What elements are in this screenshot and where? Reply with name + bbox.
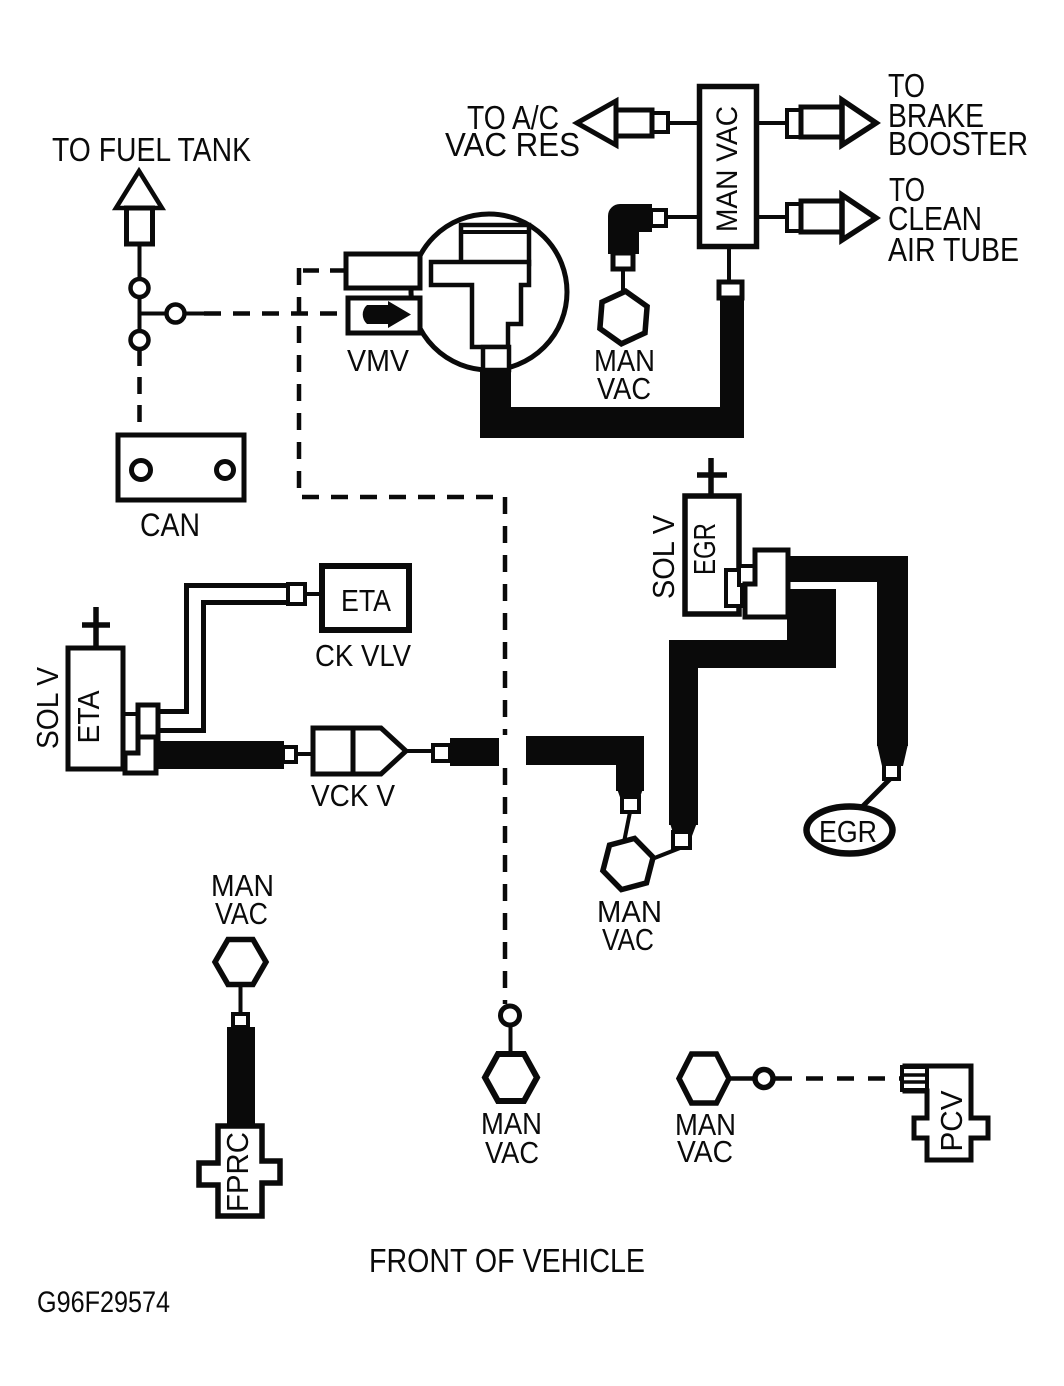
svg-text:G96F29574: G96F29574 xyxy=(37,1286,170,1319)
svg-text:ETA: ETA xyxy=(341,583,391,618)
node circle on dashed trunk (bottom) xyxy=(501,1006,520,1025)
connector to brake booster (right arrow) xyxy=(787,100,876,145)
thick hose 2 EGR solenoid to MAN VAC hexagon (black) xyxy=(669,589,836,836)
VMV left lower port rectangle xyxy=(348,298,420,333)
CAN port circle right xyxy=(217,462,234,479)
elbow connector (black) at MAN VAC left port xyxy=(609,205,651,253)
PCV ribbed connector xyxy=(902,1067,927,1090)
svg-text:EGR: EGR xyxy=(819,814,877,849)
svg-text:VAC: VAC xyxy=(215,896,268,931)
plus symbol above EGR solenoid xyxy=(697,458,727,498)
svg-text:AIR TUBE: AIR TUBE xyxy=(888,231,1019,268)
svg-text:CAN: CAN xyxy=(140,507,200,543)
elbow side connector xyxy=(651,210,666,226)
svg-text:SOL V: SOL V xyxy=(646,515,681,599)
FPRC top connector xyxy=(233,1014,248,1027)
wire elbow to box xyxy=(666,215,697,219)
hose 1 end connector xyxy=(884,764,899,779)
wire hose2 to hexagon xyxy=(652,848,680,859)
hexagon port MAN VAC (bottom middle) xyxy=(485,1054,537,1101)
hexagon port MAN VAC (bottom right) xyxy=(679,1054,729,1103)
hexagon port MAN VAC (middle right) xyxy=(603,838,653,889)
EGR valve oval xyxy=(807,807,893,854)
dashed wire junction to VMV lower port xyxy=(204,311,352,316)
solenoid SOL V ETA box xyxy=(68,648,123,769)
svg-text:VAC RES: VAC RES xyxy=(445,126,580,163)
VCK V right connector xyxy=(433,745,450,761)
node circle right of hexagon xyxy=(755,1070,773,1088)
VMV valve circle xyxy=(411,214,567,370)
EGR solenoid fitting piece C xyxy=(745,550,788,617)
svg-text:TO FUEL TANK: TO FUEL TANK xyxy=(52,131,251,168)
wire hexagon to node circle xyxy=(729,1076,756,1081)
vacuum check valve VCK V xyxy=(313,728,406,774)
hose 3 end connector xyxy=(622,797,639,812)
CAN port circle left xyxy=(132,461,151,480)
svg-text:CK VLV: CK VLV xyxy=(315,638,411,673)
hose connector below MAN VAC box xyxy=(727,249,731,283)
hexagon port MAN VAC (top) xyxy=(600,291,647,344)
manifold vacuum source box MAN VAC xyxy=(700,87,757,247)
svg-text:BOOSTER: BOOSTER xyxy=(888,125,1028,162)
svg-text:ETA: ETA xyxy=(71,690,106,743)
thick hose 3 VCK V to MAN VAC hexagon (black) xyxy=(526,736,644,800)
solenoid SOL V EGR box xyxy=(685,496,739,614)
VMV inner top rectangle xyxy=(461,225,529,264)
wire circle to hexagon xyxy=(509,1025,513,1055)
ETA fitting lower piece xyxy=(125,737,156,773)
thick hose 1 EGR solenoid to EGR valve (black) xyxy=(786,556,908,766)
outlined hose CK VLV to ETA fitting (inner wall) xyxy=(159,603,288,731)
wire connector to CK VLV box xyxy=(305,592,322,596)
elbow bottom connector xyxy=(613,253,633,269)
hose end connector xyxy=(283,747,296,762)
black arrow inside lower port xyxy=(363,301,411,328)
regulator FPRC body xyxy=(199,1126,280,1216)
valve PCV body xyxy=(905,1066,988,1160)
VMV bottom connector xyxy=(483,347,509,370)
dashed trunk down x=505 to bottom circle xyxy=(503,497,508,735)
wire connector to VCK V xyxy=(296,752,313,756)
svg-text:EGR: EGR xyxy=(687,523,722,575)
VMV left upper port rectangle xyxy=(346,254,420,288)
CK VLV left connector xyxy=(288,584,305,604)
hexagon port MAN VAC (bottom left) xyxy=(215,940,266,985)
wire hose3 to hexagon xyxy=(624,812,630,842)
fuel tank arrow symbol xyxy=(116,171,162,244)
VMV T-shaped valve body xyxy=(431,262,529,347)
node circle on fuel tank line xyxy=(131,279,149,297)
dashed trunk down from corner x=299 xyxy=(299,268,505,497)
svg-text:VCK V: VCK V xyxy=(311,778,395,813)
svg-text:VMV: VMV xyxy=(347,343,409,378)
wire ETA box to lower fitting xyxy=(123,754,127,758)
svg-text:VAC: VAC xyxy=(485,1135,539,1170)
connector to clean air tube (right arrow) xyxy=(787,195,876,240)
wire hexagon to FPRC connector xyxy=(239,985,243,1015)
svg-text:MAN VAC: MAN VAC xyxy=(711,106,744,232)
thick hose stub before dashed trunk (black) xyxy=(450,738,499,766)
wire box to clean air connector xyxy=(759,215,790,219)
EGR solenoid fitting piece B xyxy=(739,566,756,585)
hose 2 end connector xyxy=(673,832,690,848)
connector to A/C vac res (left arrow) xyxy=(577,101,668,145)
wire ETA box to upper fitting xyxy=(123,712,138,716)
dashed wire to PCV xyxy=(775,1076,902,1081)
svg-text:VAC: VAC xyxy=(602,922,654,957)
wire elbow to hexagon xyxy=(621,269,625,294)
check valve box ETA CK VLV xyxy=(322,566,409,630)
outlined hose CK VLV to ETA fitting (outer wall) xyxy=(157,586,288,712)
ETA fitting upper piece xyxy=(138,705,158,741)
svg-text:PCV: PCV xyxy=(934,1090,969,1151)
wire box to brake booster connector xyxy=(759,121,790,125)
svg-text:VAC: VAC xyxy=(677,1134,733,1169)
wire VCK V tip to connector xyxy=(406,749,433,753)
node circle right of junction xyxy=(167,305,185,323)
svg-text:FRONT OF VEHICLE: FRONT OF VEHICLE xyxy=(369,1242,645,1279)
svg-text:VAC: VAC xyxy=(597,371,651,406)
wire box to A/C connector xyxy=(668,121,697,125)
thick hose ETA solenoid to VCK V (black) xyxy=(155,741,284,769)
dashed wire canister drop xyxy=(137,349,142,457)
node circle below junction xyxy=(131,331,149,349)
EGR solenoid fitting piece A xyxy=(726,570,742,606)
canister CAN xyxy=(118,435,244,500)
plus symbol above ETA solenoid xyxy=(82,607,110,650)
thick hose VMV to MAN VAC box (black) xyxy=(480,297,744,438)
dashed wire VMV upper port to vertical trunk xyxy=(297,268,346,273)
svg-text:FPRC: FPRC xyxy=(220,1132,255,1212)
thick hose to FPRC (black) xyxy=(227,1027,255,1128)
svg-text:SOL V: SOL V xyxy=(30,667,65,749)
wire to EGR oval xyxy=(862,779,890,807)
wire fuel tank to junction xyxy=(140,244,205,332)
